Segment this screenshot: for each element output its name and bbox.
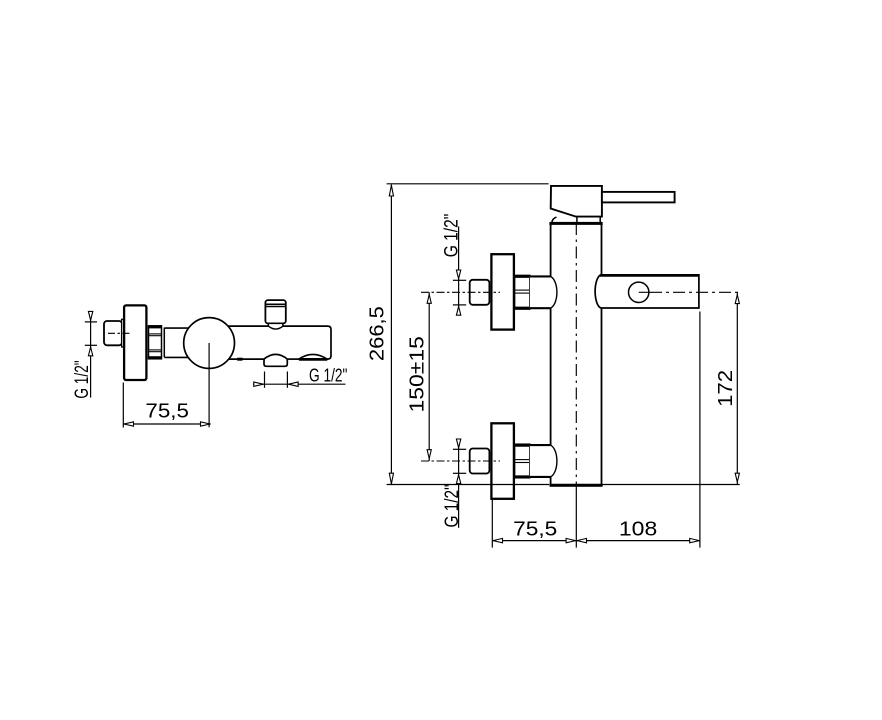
svg-text:G 1/2": G 1/2" [71,360,93,398]
hose connection skirt (side view) [264,359,287,366]
dimension line 75,5 / 108 (front view) [492,538,700,542]
svg-text:75,5: 75,5 [513,517,557,540]
bottom inlet fitting G1/2 (front view) [470,449,490,474]
bottom escutcheon (front view) [491,423,514,499]
nut shoulder line (side view) [163,328,165,358]
svg-text:G 1/2": G 1/2" [440,214,462,258]
svg-text:266,5: 266,5 [366,306,389,361]
svg-text:G 1/2": G 1/2" [440,484,462,527]
spout tube body (side view) [228,326,332,359]
shower outlet cap (side view) [265,300,285,323]
connection neck (side view) [164,328,189,357]
wall union fitting G1/2 (side view) [104,321,122,345]
aerator outlet arc (side view) [299,354,327,359]
handle body (front view) [551,186,602,217]
hose connection boss arc (side view) [264,354,287,359]
dimension 266,5 (front view) [387,184,549,485]
top mounting nut (front view) [514,275,531,309]
column centerline (front view) [575,223,577,486]
valve center extension line (side view) [208,343,210,427]
shower outlet neck (side view) [268,323,283,327]
extension line 75,5 left (front view) [491,500,493,548]
valve body circle (side view) [184,318,235,369]
svg-text:G 1/2": G 1/2" [309,365,348,385]
tick mark on tube bottom (side view) [237,358,242,361]
dimension 150±15 (front view) [427,292,431,461]
bottom extension line (front view) [387,484,740,486]
dimension G1/2 outlet (side view) [253,372,346,388]
bottom connector dome (front view) [530,445,558,477]
bottom inlet centerline (front view) [421,460,500,462]
bottom mounting nut (front view) [514,444,531,478]
spout outlet circle (front view) [629,282,649,302]
handle skirt (front view) [552,217,601,223]
top connector dome (front view) [530,276,558,308]
spout centerline (front view) [639,291,740,293]
extension line center (front view) [575,486,577,548]
dimension 75,5 (side view) [123,383,210,428]
svg-text:108: 108 [619,517,657,540]
top inlet fitting G1/2 (front view) [470,280,490,305]
top escutcheon (front view) [491,254,514,329]
dimension 172 (front view) [735,292,739,484]
dimension G1/2 left (side view) [85,311,97,397]
svg-text:150±15: 150±15 [406,336,429,413]
body column (front view) [549,223,602,486]
svg-text:172: 172 [714,370,737,407]
top inlet centerline (front view) [421,291,500,293]
dimension G1/2 bottom (front view) [453,439,466,528]
mounting hex nut (side view) [148,326,162,359]
shower outlet base arc (side view) [269,326,283,329]
svg-text:75,5: 75,5 [145,400,189,423]
extension line 108 right (front view) [699,312,701,548]
dimension G1/2 top (front view) [453,227,466,316]
union flange (side view) [122,319,125,347]
spout (front view) [595,275,699,308]
escutcheon plate (side view) [124,305,146,380]
fitting centerline (side view) [108,332,131,334]
handle lever (front view) [602,192,675,203]
